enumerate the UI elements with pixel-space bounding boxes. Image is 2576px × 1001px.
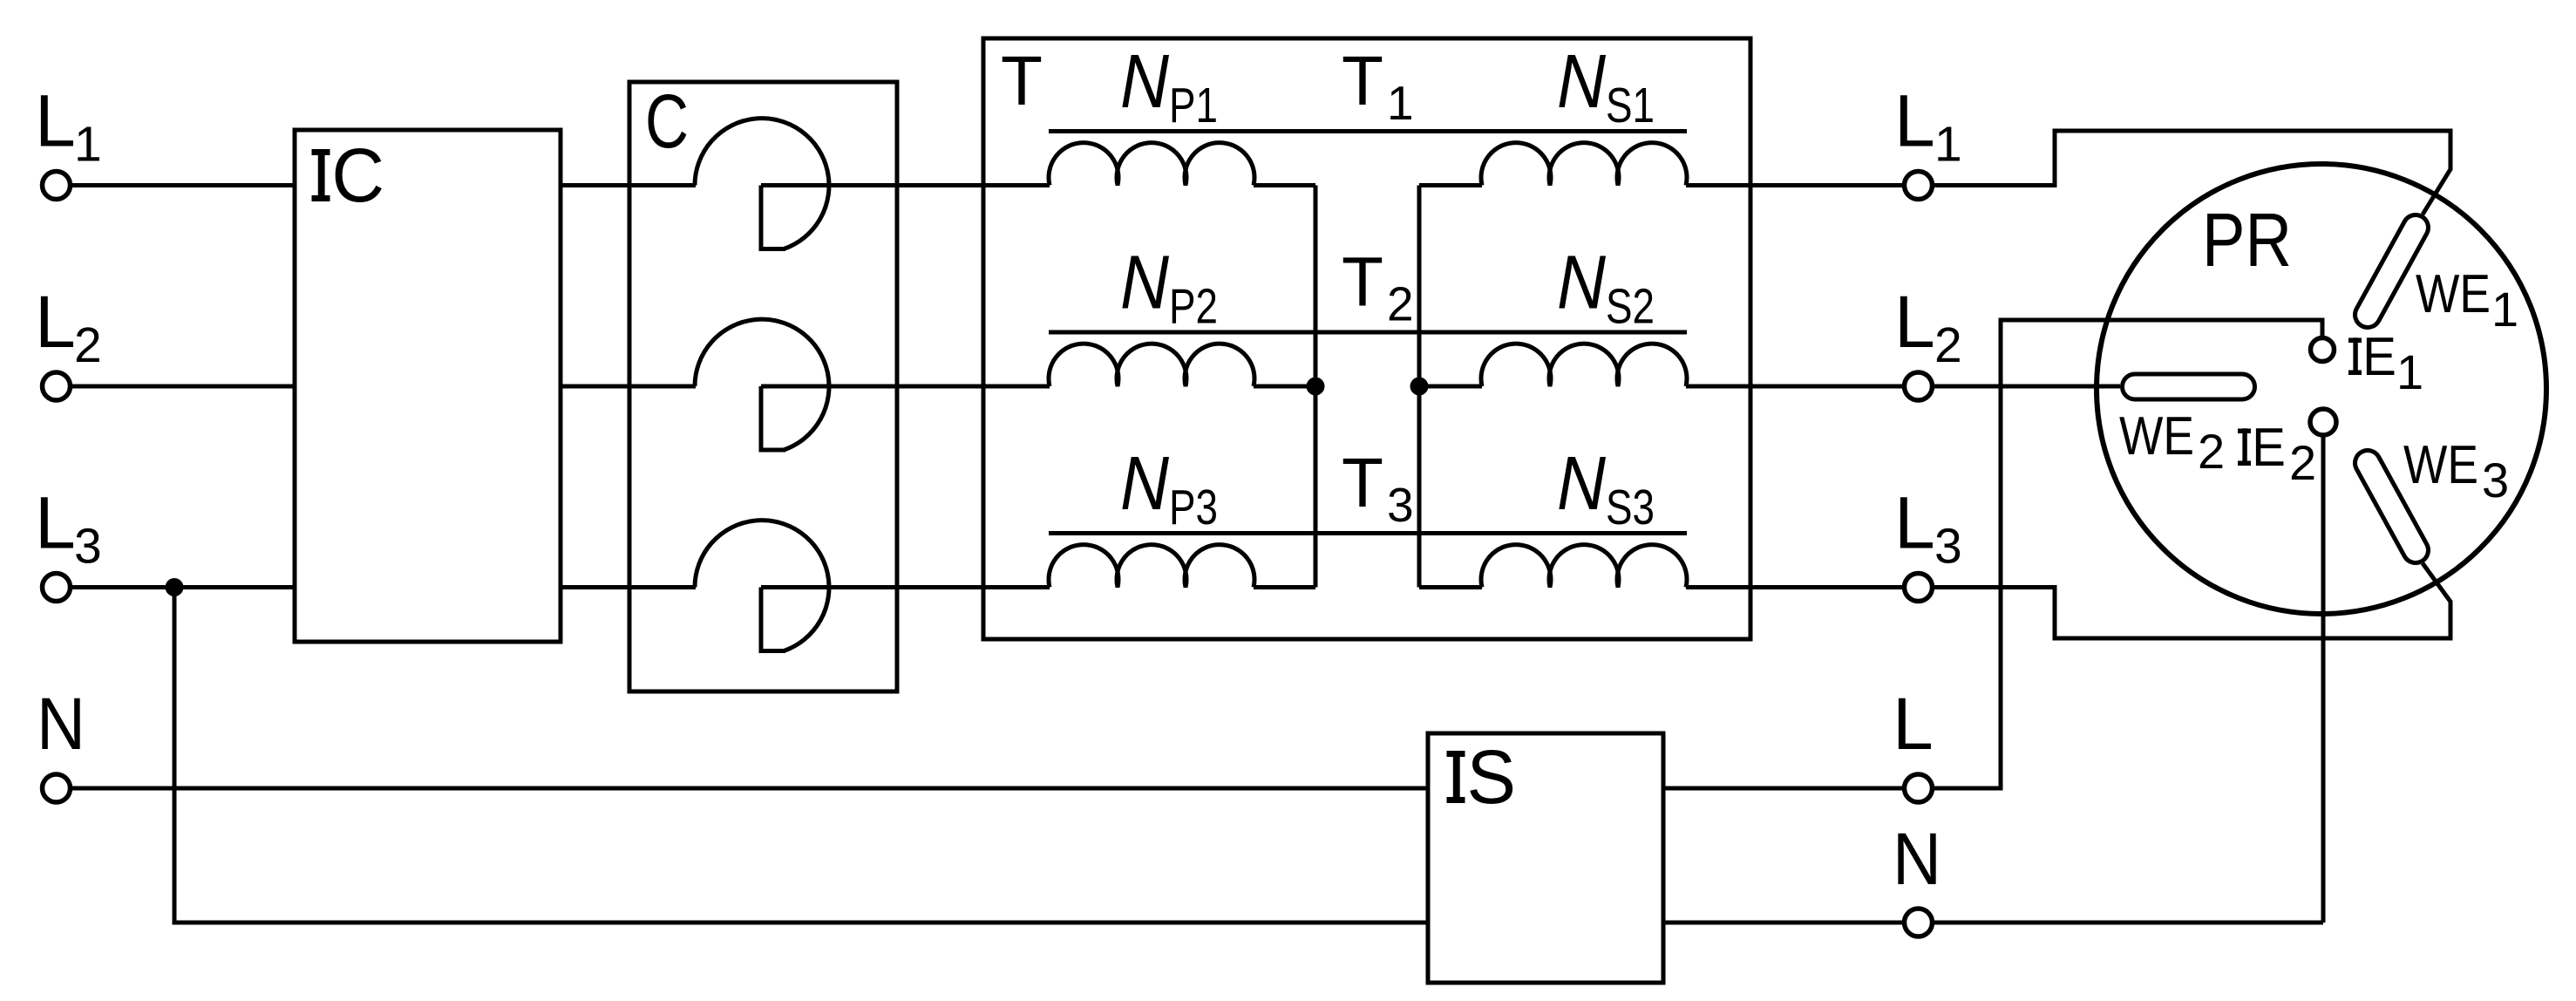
wire L3 terminal to IC xyxy=(72,585,295,589)
svg-text:L: L xyxy=(1894,482,1935,564)
svg-text:1: 1 xyxy=(1934,117,1962,173)
primary winding NP3 xyxy=(1049,545,1254,588)
filter block IC xyxy=(295,130,561,642)
hob plate PR xyxy=(2097,164,2546,614)
wire T to right terminal L1 xyxy=(1750,183,1902,187)
svg-text:N: N xyxy=(1120,441,1169,526)
wire secondary bus to NS3 xyxy=(1419,585,1482,589)
svg-text:L: L xyxy=(1894,80,1935,162)
primary winding NP1 xyxy=(1049,143,1254,186)
wire IS to N terminal xyxy=(1663,921,1902,925)
current sensor C3 arc xyxy=(695,521,829,651)
svg-text:L: L xyxy=(35,482,76,564)
wire L2 terminal to IC xyxy=(72,385,295,389)
wire L1 to WE1 xyxy=(1934,131,2450,214)
svg-text:N: N xyxy=(1557,241,1606,325)
current sensor C1 arc xyxy=(695,119,829,249)
svg-text:T: T xyxy=(1342,243,1383,321)
svg-text:N: N xyxy=(1120,241,1169,325)
current sensor C2 corner xyxy=(761,386,785,450)
svg-text:T: T xyxy=(1342,444,1383,521)
wire secondary bus to NS2 xyxy=(1419,385,1482,389)
wire NS1 to box edge xyxy=(1686,183,1750,187)
wire L2 to WE2 xyxy=(1934,385,2120,389)
wire into NP2 xyxy=(983,385,1050,389)
svg-text:IE: IE xyxy=(2348,327,2396,387)
wire NP3 to primary bus xyxy=(1254,585,1315,589)
wire into NP3 xyxy=(983,585,1050,589)
svg-text:L: L xyxy=(1893,683,1934,765)
svg-text:3: 3 xyxy=(1387,478,1414,532)
wire L3 to WE3 xyxy=(1934,563,2450,638)
current sensor C1 corner xyxy=(761,186,785,249)
svg-text:C: C xyxy=(645,79,689,164)
induction element IE1 xyxy=(2311,338,2335,362)
svg-text:2: 2 xyxy=(2289,435,2316,490)
wire IC to current sensor 1 xyxy=(561,183,696,187)
terminal L1 (left) xyxy=(43,172,71,200)
svg-text:N: N xyxy=(1893,818,1941,900)
svg-text:2: 2 xyxy=(1387,277,1414,331)
svg-text:N: N xyxy=(1557,441,1606,526)
secondary winding NS1 xyxy=(1481,143,1687,186)
wire sensor 2 to T xyxy=(761,385,983,389)
svg-text:P3: P3 xyxy=(1169,480,1218,535)
wire T to right terminal L3 xyxy=(1750,585,1902,589)
secondary winding NS3 xyxy=(1481,545,1687,588)
core line T1 xyxy=(1049,129,1687,133)
terminal L2 (left) xyxy=(43,372,71,400)
svg-text:WE: WE xyxy=(2416,264,2491,324)
wire NS2 to box edge xyxy=(1686,385,1750,389)
junction dot secondary bus xyxy=(1410,378,1429,396)
svg-text:L: L xyxy=(35,281,76,363)
transformer block T xyxy=(983,38,1750,639)
terminal L (right) xyxy=(1905,774,1933,802)
svg-text:N: N xyxy=(1120,39,1169,124)
wire NP2 to primary bus xyxy=(1254,385,1315,389)
wire IS to L terminal xyxy=(1663,786,1902,791)
svg-text:PR: PR xyxy=(2202,198,2292,283)
junction dot primary bus xyxy=(1307,378,1325,396)
svg-text:3: 3 xyxy=(1934,519,1962,575)
core line T2 xyxy=(1049,330,1687,335)
svg-text:1: 1 xyxy=(1387,76,1414,130)
L feed riser xyxy=(1933,320,2323,788)
wire N terminal to IE2 riser xyxy=(1934,921,2323,925)
wire IC to current sensor 2 xyxy=(561,385,696,389)
svg-text:1: 1 xyxy=(2396,344,2423,399)
current sensor C2 arc xyxy=(695,319,829,450)
svg-text:S2: S2 xyxy=(1606,279,1655,335)
svg-text:IC: IC xyxy=(311,133,384,218)
svg-text:WE: WE xyxy=(2403,435,2478,495)
svg-text:IE: IE xyxy=(2238,418,2286,478)
primary star bus xyxy=(1314,186,1318,588)
wire IC to current sensor 3 xyxy=(561,585,696,589)
secondary star bus xyxy=(1417,186,1422,588)
terminal L3 (left) xyxy=(43,574,71,602)
svg-text:L: L xyxy=(35,80,76,162)
wire sensor 3 to T xyxy=(761,585,983,589)
terminal L1 (right) xyxy=(1905,172,1933,200)
heating element WE1 xyxy=(2355,214,2429,327)
primary winding NP2 xyxy=(1049,344,1254,386)
core line T3 xyxy=(1049,531,1687,535)
current sensor C3 corner xyxy=(761,588,785,651)
heating element WE2 xyxy=(2123,374,2255,399)
svg-text:P1: P1 xyxy=(1169,78,1218,133)
branch L3 down to bottom wire xyxy=(174,588,1428,923)
wire sensor 1 to T xyxy=(761,183,983,187)
svg-text:P2: P2 xyxy=(1169,279,1218,335)
terminal N (right) xyxy=(1905,909,1933,936)
svg-text:WE: WE xyxy=(2119,406,2194,466)
power supply block IS xyxy=(1428,733,1663,983)
svg-text:N: N xyxy=(1557,39,1606,124)
svg-text:T: T xyxy=(1001,42,1043,119)
wire NP1 to primary bus xyxy=(1254,183,1315,187)
svg-text:S1: S1 xyxy=(1606,78,1655,133)
junction dot on L3 xyxy=(166,578,184,596)
terminal L3 (right) xyxy=(1905,574,1933,602)
svg-text:L: L xyxy=(1894,281,1935,363)
wire L1 terminal to IC xyxy=(72,183,295,187)
svg-text:2: 2 xyxy=(2198,424,2225,479)
terminal N (left) xyxy=(43,774,71,802)
svg-text:1: 1 xyxy=(74,117,102,173)
wire IE2 to N xyxy=(2321,435,2326,923)
wire T to right terminal L2 xyxy=(1750,385,1902,389)
wire N (left) to IS xyxy=(72,786,1428,791)
svg-text:N: N xyxy=(37,683,85,765)
induction element IE2 xyxy=(2310,409,2336,435)
wire into NP1 xyxy=(983,183,1050,187)
current-sensor block C xyxy=(629,82,897,691)
wire NS3 to box edge xyxy=(1686,585,1750,589)
svg-text:T: T xyxy=(1342,42,1383,119)
svg-text:3: 3 xyxy=(74,519,102,575)
svg-text:S3: S3 xyxy=(1606,480,1655,535)
heating element WE3 xyxy=(2355,451,2429,563)
terminal L2 (right) xyxy=(1905,372,1933,400)
svg-text:3: 3 xyxy=(2482,453,2509,507)
svg-text:1: 1 xyxy=(2491,282,2518,337)
svg-text:2: 2 xyxy=(74,317,102,373)
wire secondary bus to NS1 xyxy=(1419,183,1482,187)
secondary winding NS2 xyxy=(1481,344,1687,386)
svg-text:IS: IS xyxy=(1446,735,1516,820)
svg-text:2: 2 xyxy=(1934,317,1962,373)
